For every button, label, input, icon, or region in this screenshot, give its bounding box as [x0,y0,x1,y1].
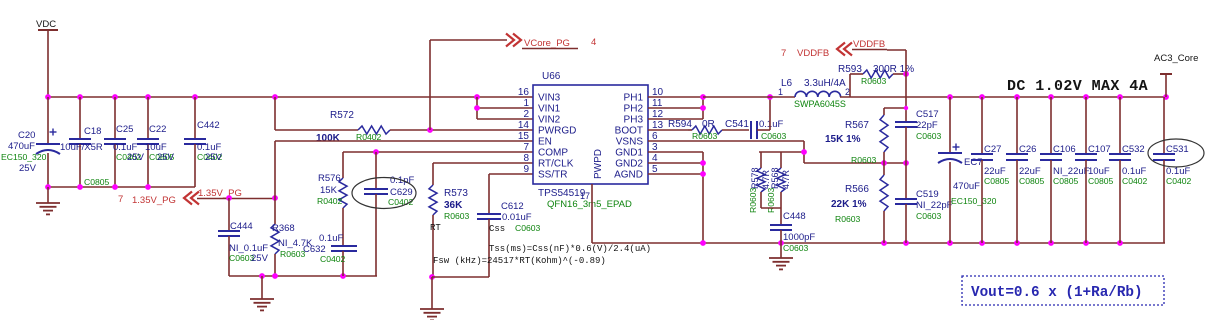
svg-text:R0603: R0603 [851,155,877,165]
svg-text:COMP: COMP [538,148,568,159]
svg-text:PH3: PH3 [624,115,644,126]
capacitor C18 [60,97,110,187]
capacitor C519 (NI) [895,163,953,243]
capacitor C442 [184,97,223,187]
net label 7 VDDFB [781,48,829,59]
svg-text:470uF: 470uF [953,181,980,192]
svg-text:8: 8 [523,153,529,164]
svg-text:R572: R572 [330,110,354,121]
svg-text:R568: R568 [770,167,780,189]
svg-text:EC150_320: EC150_320 [951,196,997,206]
svg-text:C0805: C0805 [984,176,1010,186]
op-amp/regulator U66 TPS54519 [533,71,648,184]
net terminal AC3_Core [1154,53,1198,97]
wire SS/TR [489,173,533,175]
wire EPAD to ground rail [591,184,593,243]
svg-text:R0402: R0402 [317,196,343,206]
svg-text:0.1uF: 0.1uF [319,233,343,244]
pin 17 EPAD [580,191,590,201]
svg-text:VSNS: VSNS [616,137,644,148]
svg-text:R0603: R0603 [444,211,470,221]
capacitor C26 [1006,97,1045,243]
svg-text:R0603: R0603 [835,214,861,224]
capacitor C106 [1040,97,1090,243]
capacitor C20 (electrolytic 470uF) [1,97,60,187]
ground RT node [420,277,444,320]
svg-text:C0603: C0603 [515,223,541,233]
capacitor C612 [477,174,541,277]
resistor R368 (NI 4.7K) [271,198,313,276]
junction dots PH node [700,94,706,111]
svg-text:VIN1: VIN1 [538,104,561,115]
ground power rail [769,243,793,269]
junction dot RT ground node [429,274,435,280]
svg-text:C27: C27 [984,144,1001,155]
svg-text:R0603: R0603 [692,131,718,141]
svg-text:25V: 25V [251,253,269,264]
wire analog ground rail [229,275,377,277]
svg-text:4.7R: 4.7R [781,169,791,189]
wire PH3 [648,97,703,119]
svg-text:C0603: C0603 [783,243,809,253]
pin numbers U66 [518,87,664,175]
svg-text:C0603: C0603 [916,131,942,141]
resistor R578 4.7R [748,152,771,213]
wire input ground rail [48,186,195,188]
svg-text:EC7: EC7 [964,157,982,168]
junction dot VIN1 [474,105,480,111]
svg-text:25V: 25V [127,152,145,163]
capacitor C107 [1075,97,1114,243]
resistor R573 36K [429,163,470,277]
junction dots input rail [45,184,151,190]
svg-text:1: 1 [778,87,783,97]
svg-text:0.1uF: 0.1uF [759,119,783,130]
svg-text:R576: R576 [318,173,341,184]
capacitor C517 [895,109,942,163]
svg-text:U66: U66 [542,71,561,82]
svg-text:7: 7 [118,194,123,205]
wire RT/CLK [433,162,533,164]
svg-text:Vout=0.6 x (1+Ra/Rb): Vout=0.6 x (1+Ra/Rb) [971,285,1143,301]
note box Vout formula [962,276,1164,305]
ground input rail [36,187,60,214]
svg-text:SS/TR: SS/TR [538,170,567,181]
wire EN riser [274,141,276,198]
svg-text:R0603: R0603 [861,76,887,86]
svg-text:C22: C22 [149,124,166,135]
svg-text:1.35V_PG: 1.35V_PG [198,188,242,199]
svg-text:0R: 0R [702,119,715,130]
junction dot PWRGD node [427,127,433,133]
capacitor C532 [1109,97,1148,243]
svg-text:15K: 15K [320,185,338,196]
formula Fsw [433,256,606,266]
wire bootstrap riser [769,97,771,130]
wire BOOT [648,129,688,131]
svg-text:R0603: R0603 [280,249,306,259]
capacitor C541 [725,119,787,141]
svg-text:VDDFB: VDDFB [797,48,829,59]
net connector 1.35V_PG [184,188,275,205]
wire EN [275,140,533,142]
svg-text:14: 14 [518,120,530,131]
svg-text:C0402: C0402 [1166,176,1192,186]
svg-text:3.3uH/4A: 3.3uH/4A [804,78,846,89]
wire VSNS [648,141,804,163]
svg-text:C0805: C0805 [1053,176,1079,186]
junction dots output line [947,94,1169,100]
svg-text:PH1: PH1 [624,93,644,104]
wire sense filter link [759,151,804,153]
svg-text:1: 1 [523,98,529,109]
wire GND pins [648,152,703,243]
svg-text:25V: 25V [205,152,223,163]
svg-text:22K 1%: 22K 1% [831,199,867,210]
junction dots on VIN bus [45,94,480,100]
junction dots 1.35V_PG node [226,195,278,201]
junction dots analog rail [259,273,346,279]
svg-text:GND1: GND1 [615,148,643,159]
svg-text:C0805: C0805 [84,177,110,187]
svg-text:SWPA6045S: SWPA6045S [794,99,846,109]
svg-text:PWPD: PWPD [593,149,604,179]
svg-text:C612: C612 [501,201,524,212]
svg-text:C18: C18 [84,126,101,137]
svg-text:DC 1.02V MAX 4A: DC 1.02V MAX 4A [1007,78,1148,95]
svg-text:16: 16 [518,87,530,98]
wire COMP [343,151,533,153]
svg-text:2: 2 [523,109,529,120]
wire VDDFB to C517 column [905,74,907,122]
svg-text:C517: C517 [916,109,939,120]
capacitor C629 [364,152,414,276]
wire PH2 [648,107,703,109]
capacitor C25 [104,97,145,187]
svg-text:R594: R594 [668,119,692,130]
capacitor C27 [971,97,1010,243]
svg-text:PH2: PH2 [624,104,644,115]
wire PH1 [648,96,703,98]
svg-text:22pF: 22pF [916,120,938,131]
wire top VIN bus [48,96,533,98]
svg-text:C531: C531 [1166,144,1189,155]
svg-text:C107: C107 [1088,144,1111,155]
svg-text:VIN3: VIN3 [538,93,561,104]
svg-text:R0603: R0603 [766,187,776,213]
ground analog rail [250,276,274,310]
junction dot C517 column [904,106,908,110]
svg-text:15K 1%: 15K 1% [825,134,861,145]
title DC 1.02V MAX 4A [1007,78,1148,95]
svg-text:C448: C448 [783,211,806,222]
svg-text:10uF/X5R: 10uF/X5R [60,142,103,153]
svg-text:C0805: C0805 [1019,176,1045,186]
wire sense filter bottom link [761,207,781,209]
capacitor C531 [1153,97,1192,243]
wire RT-Css ground link [432,276,489,278]
svg-text:VDC: VDC [36,19,56,30]
svg-text:QFN16_3m5_EPAD: QFN16_3m5_EPAD [547,199,632,210]
svg-text:R368: R368 [272,223,295,234]
resistor R566 22K 1% [831,163,888,243]
svg-text:AC3_Core: AC3_Core [1154,53,1198,64]
svg-text:Css: Css [489,224,505,234]
inductor L6 3.3uH/4A [778,78,850,109]
net connector VDDFB [837,39,906,56]
svg-text:VCore_PG: VCore_PG [524,38,570,49]
power terminal VDC [36,19,58,97]
svg-text:C0402: C0402 [1122,176,1148,186]
capacitor C632 [303,233,357,276]
capacitor C448 [770,208,815,253]
svg-text:C442: C442 [197,120,220,131]
svg-text:7: 7 [523,142,529,153]
highlight ellipse around C629 [352,178,416,209]
svg-text:R578: R578 [750,167,760,189]
svg-text:9: 9 [523,164,529,175]
svg-text:R566: R566 [845,184,869,195]
svg-text:AGND: AGND [614,170,643,181]
wire VDDFB riser [905,50,907,74]
svg-text:25V: 25V [157,152,175,163]
svg-text:R593: R593 [838,64,862,75]
wire output line [840,96,1166,98]
wire VIN riser [477,97,533,119]
highlight ellipse around C531 [1148,139,1204,167]
svg-text:R567: R567 [845,120,869,131]
svg-text:C25: C25 [116,124,133,135]
svg-text:7: 7 [781,48,786,59]
wire PH to L6 [703,96,795,98]
svg-text:PWRGD: PWRGD [538,126,576,137]
svg-text:36K: 36K [444,200,463,211]
resistor R568 4.7R [766,152,791,213]
svg-text:C519: C519 [916,189,939,200]
svg-text:25V: 25V [19,163,37,174]
svg-text:C0805: C0805 [1088,176,1114,186]
resistor R576 15K [317,152,347,246]
svg-text:GND2: GND2 [615,159,643,170]
svg-text:Tss(ms)=Css(nF)*0.6(V)/2.4(uA): Tss(ms)=Css(nF)*0.6(V)/2.4(uA) [489,244,651,254]
capacitor C22 [137,97,175,187]
svg-text:RT: RT [430,223,441,233]
svg-text:TPS54519: TPS54519 [538,188,586,199]
svg-text:EN: EN [538,137,552,148]
svg-text:Fsw (kHz)=24517*RT(Kohm)^(-0.8: Fsw (kHz)=24517*RT(Kohm)^(-0.89) [433,256,606,266]
svg-text:1000pF: 1000pF [783,232,815,243]
junction dot COMP node [373,149,379,155]
wire power ground rail [592,242,1165,244]
svg-text:C444: C444 [230,221,253,232]
svg-text:RT/CLK: RT/CLK [538,159,574,170]
svg-text:VDDFB: VDDFB [853,39,885,50]
net label 7 1.35V_PG [118,194,176,206]
svg-text:NI_22pF: NI_22pF [916,200,953,211]
svg-text:R573: R573 [444,188,468,199]
svg-text:C20: C20 [18,130,35,141]
svg-text:C541: C541 [725,119,749,130]
label QFN16_3m5_EPAD [547,199,632,210]
svg-text:EC150_320: EC150_320 [1,152,47,162]
resistor R594 0R [668,119,749,141]
svg-text:C532: C532 [1122,144,1145,155]
svg-text:R0603: R0603 [748,187,758,213]
svg-text:C0603: C0603 [916,211,942,221]
net connector VCore_PG [506,34,596,50]
svg-text:C26: C26 [1019,144,1036,155]
svg-text:100K: 100K [316,133,341,144]
capacitor C444 (NI) [218,198,269,276]
wire FB row [804,162,906,164]
capacitor EC7 (electrolytic 470uF) [938,97,997,243]
svg-text:15: 15 [518,131,530,142]
resistor R593 300R 1% [838,64,914,97]
junction dot bootstrap [767,94,773,100]
svg-text:C0402: C0402 [320,254,346,264]
wire R567 top link [884,107,906,109]
junction dot sense link [801,149,807,155]
junction dot VDDFB node [903,71,909,77]
wire VCore_PG riser [430,40,507,130]
label TPS54519 [538,188,586,199]
svg-text:4: 4 [591,37,596,48]
junction dots FB row [881,160,909,166]
formula Tss [489,244,651,254]
junction dots ground rail [700,240,1123,246]
svg-text:C106: C106 [1053,144,1076,155]
junction dots GND pins [700,160,706,177]
svg-text:VIN2: VIN2 [538,115,561,126]
resistor R567 15K 1% [825,108,888,165]
svg-text:470uF: 470uF [8,141,35,152]
svg-text:C0603: C0603 [761,131,787,141]
svg-text:1.35V_PG: 1.35V_PG [132,195,176,206]
svg-text:BOOT: BOOT [615,126,643,137]
wire R572 branch riser [274,97,276,130]
resistor R572 100K [275,110,533,144]
svg-text:0.01uF: 0.01uF [502,212,532,223]
